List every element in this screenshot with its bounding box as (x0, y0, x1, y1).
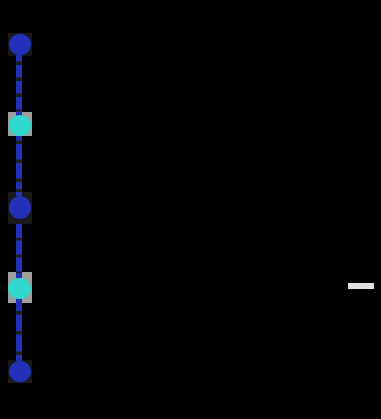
node 4 dot (cyan) (8, 278, 31, 299)
node 5 dot (navy) (9, 361, 31, 382)
node 3 dot (navy) (9, 196, 31, 219)
wire: dashed connector segment 3 (16, 224, 22, 278)
wire: dashed connector segment 1 (16, 55, 22, 117)
skeleton title bar fragments (black on black) (48, 15, 56, 24)
node 1 dot (navy) (9, 34, 32, 55)
node 2 dot (cyan) (9, 115, 32, 136)
node 2 chip (gray) (8, 112, 33, 136)
node 1 chip (dark) (8, 33, 33, 56)
node 4 chip (gray) (8, 272, 33, 304)
node 3 chip (dark) (8, 192, 33, 224)
node 5 chip (dark) (8, 360, 33, 383)
wire: dashed connector segment 4 (16, 298, 22, 361)
wire: dashed connector segment 2 (16, 136, 22, 196)
skeleton text bar (light) (348, 283, 374, 289)
